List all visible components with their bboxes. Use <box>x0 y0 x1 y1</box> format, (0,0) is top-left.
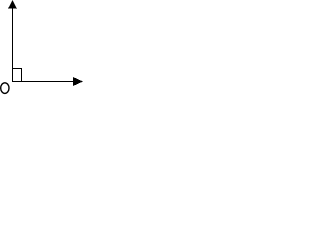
y-axis arrowhead (up) <box>8 0 17 9</box>
origin label O <box>1 83 9 94</box>
x-axis arrowhead (right) <box>73 77 83 86</box>
x-axis (horizontal ray) <box>12 81 82 83</box>
coordinate axes figure <box>0 0 85 99</box>
y-axis (vertical ray) <box>12 1 14 82</box>
right-angle marker at origin <box>12 69 22 82</box>
